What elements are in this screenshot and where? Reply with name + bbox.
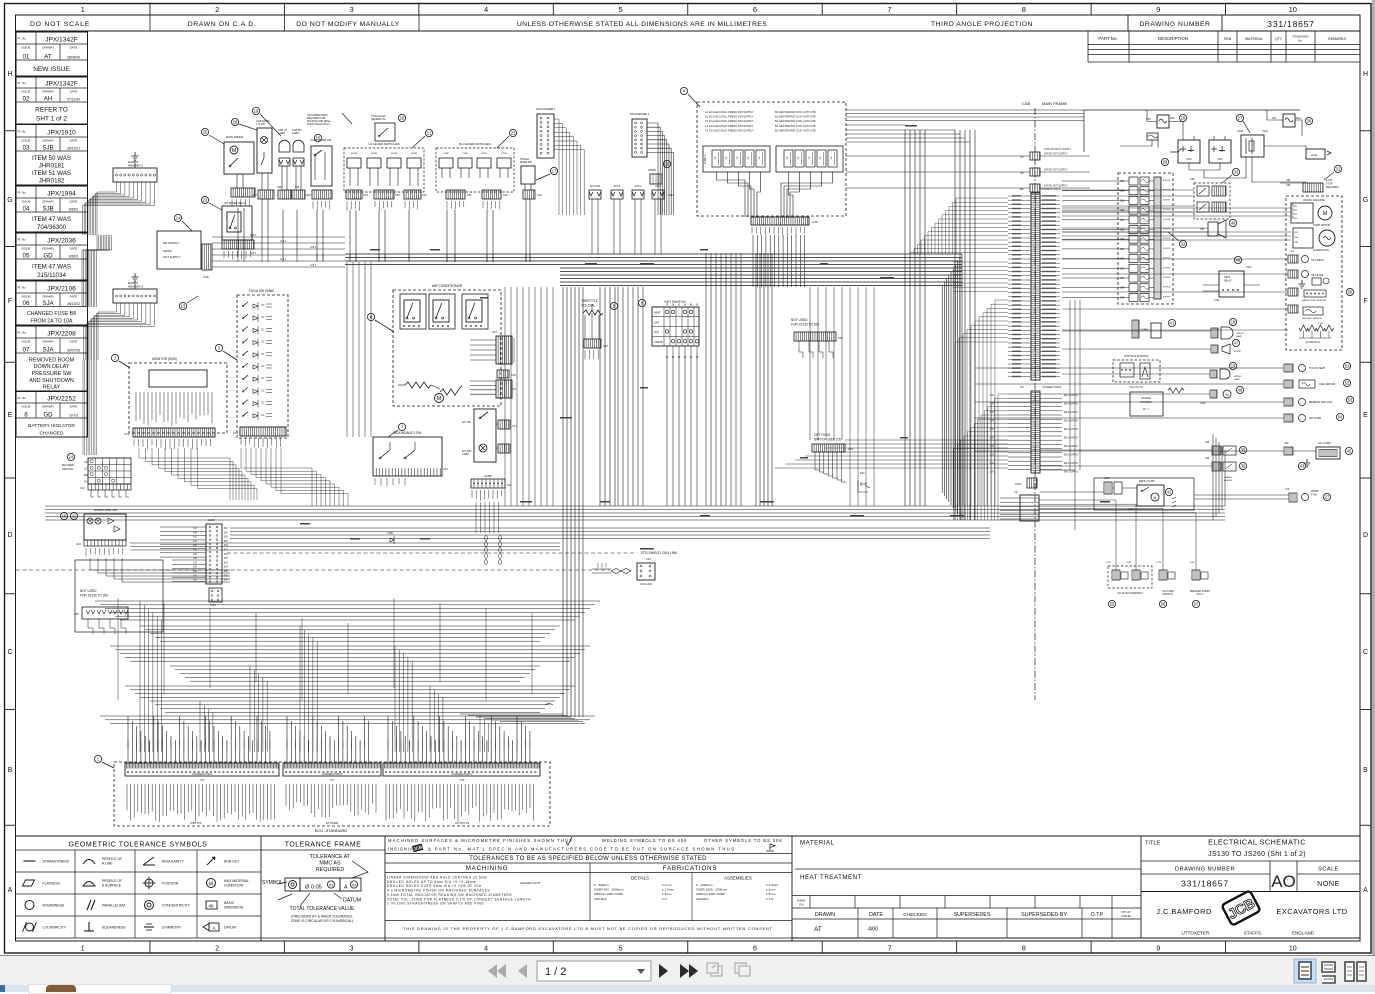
- svg-text:DASH HEADER 3: DASH HEADER 3: [536, 108, 556, 111]
- svg-text:± 1.5mm: ± 1.5mm: [662, 888, 674, 892]
- svg-text:C84: C84: [1286, 184, 1291, 187]
- horizontal wire bus center: [345, 254, 962, 265]
- svg-text:AH: AH: [44, 96, 53, 103]
- svg-text:A.B: A.B: [193, 549, 197, 552]
- svg-text:FACIA SW PANEL: FACIA SW PANEL: [249, 289, 275, 293]
- svg-text:24: 24: [69, 455, 74, 460]
- svg-text:GD: GD: [43, 253, 53, 260]
- svg-text:& PART No, MAT'L SPEC'N AND MA: & PART No, MAT'L SPEC'N AND MANUFACTURER…: [428, 847, 736, 852]
- svg-text:A.B: A.B: [193, 566, 197, 569]
- C180 wire labels: [196, 525, 200, 527]
- svg-text:B.R: B.R: [224, 554, 228, 556]
- check lamp gate 18: [1221, 327, 1233, 339]
- svg-text:± 3mm: ± 3mm: [766, 888, 776, 892]
- svg-text:RUN OUT: RUN OUT: [224, 860, 239, 864]
- svg-text:3: 3: [218, 346, 221, 351]
- geometric tolerance symbol CONCENTRICITY: [145, 901, 154, 910]
- scattered wire identification labels: [370, 249, 380, 251]
- svg-text:(PRECEDED BY ø WHEN TOLERANCE: (PRECEDED BY ø WHEN TOLERANCE: [291, 915, 353, 919]
- svg-text:FABRICATIONS: FABRICATIONS: [663, 865, 718, 872]
- svg-text:HEADER 3: HEADER 3: [128, 285, 143, 289]
- svg-text:ISSUE: ISSUE: [21, 90, 30, 94]
- svg-text:ENG REV SENSOR: ENG REV SENSOR: [1302, 318, 1322, 320]
- svg-text:B: B: [684, 304, 686, 307]
- svg-text:A.B 1: A.B 1: [310, 263, 317, 267]
- svg-text:ZONE IS CIRCULAR OR CYLINDRICA: ZONE IS CIRCULAR OR CYLINDRICAL): [291, 919, 353, 923]
- svg-text:704/36300: 704/36300: [37, 224, 67, 231]
- svg-text:30: 30: [1307, 119, 1312, 124]
- connector C32 throttle: [584, 339, 601, 348]
- facia panel switch rows: [243, 302, 248, 306]
- svg-text:2: 2: [215, 5, 219, 14]
- wires to relays and horn: [1062, 189, 1194, 191]
- svg-text:STAFFS.: STAFFS.: [1244, 931, 1263, 936]
- wires from dash header 4: [647, 123, 658, 215]
- svg-text:ISSUE: ISSUE: [21, 295, 30, 299]
- ECU signal name columns (outputs): [386, 784, 534, 822]
- svg-text:BREAKER PUMPS: BREAKER PUMPS: [1190, 590, 1210, 593]
- svg-text:EXCAVATORS LTD: EXCAVATORS LTD: [1276, 907, 1347, 916]
- svg-text:C6: C6: [1020, 155, 1024, 159]
- key switch pins: [666, 346, 668, 356]
- svg-text:CC: CC: [261, 365, 265, 368]
- svg-text:A LINE: A LINE: [102, 862, 113, 866]
- svg-text:C57: C57: [1120, 181, 1125, 183]
- wires from item 14 to right: [212, 236, 345, 238]
- svg-text:19: 19: [254, 109, 259, 114]
- svg-text:A.B: A.B: [193, 544, 197, 547]
- svg-text:AO: AO: [1271, 872, 1296, 891]
- svg-text:HOT SUPPLY: HOT SUPPLY: [163, 255, 181, 259]
- svg-text:WELDING SYMBOLS TO BS 499: WELDING SYMBOLS TO BS 499: [602, 838, 687, 843]
- svg-text:ENG SUPPLY: ENG SUPPLY: [1064, 421, 1079, 423]
- wires a/c to connectors: [470, 339, 496, 341]
- svg-text:C69: C69: [1120, 297, 1125, 299]
- svg-text:AIR CONDITIONER: AIR CONDITIONER: [432, 284, 463, 288]
- svg-text:C112: C112: [655, 185, 661, 188]
- svg-text:A.B: A.B: [193, 540, 197, 543]
- svg-text:B: B: [1363, 767, 1368, 774]
- svg-text:Pt. No: Pt. No: [18, 191, 27, 195]
- svg-text:REFILL PUMP: REFILL PUMP: [1139, 480, 1155, 483]
- glow plugs: [1299, 325, 1308, 331]
- svg-text:SCALE: SCALE: [1318, 867, 1339, 873]
- fuse panel output strip: [1154, 177, 1161, 299]
- svg-text:OUTPUTS: OUTPUTS: [455, 821, 469, 825]
- svg-text:46: 46: [208, 903, 214, 908]
- svg-text:4: 4: [484, 946, 488, 953]
- svg-text:NOT USED: NOT USED: [791, 318, 808, 322]
- svg-text:REQUIRED: REQUIRED: [1326, 186, 1339, 189]
- connector C180 vertical: [206, 524, 222, 584]
- svg-text:23: 23: [203, 198, 208, 203]
- svg-text:10-03: 10-03: [69, 414, 78, 418]
- svg-text:C137: C137: [1106, 562, 1112, 564]
- wires from dash header 3 to right then down: [554, 119, 559, 215]
- svg-text:6: 6: [753, 5, 757, 14]
- svg-text:ENGLAND: ENGLAND: [1292, 931, 1315, 936]
- svg-text:C90: C90: [1284, 442, 1289, 445]
- a/c blower resistor network: [405, 382, 431, 388]
- svg-text:DRAWING NUMBER: DRAWING NUMBER: [1175, 867, 1235, 873]
- svg-text:DATE: DATE: [70, 46, 78, 50]
- svg-text:B.R: B.R: [990, 412, 994, 414]
- svg-text:42: 42: [1167, 490, 1172, 495]
- svg-text:D: D: [1363, 532, 1368, 539]
- svg-text:8: 8: [370, 315, 373, 320]
- svg-text:1 IN 2000 STRAIGHTNESS ON SHAF: 1 IN 2000 STRAIGHTNESS ON SHAFTS AND PIN…: [387, 902, 484, 906]
- svg-text:4: 4: [484, 5, 488, 14]
- svg-text:C59: C59: [1120, 200, 1125, 202]
- svg-text:OFF: OFF: [654, 320, 660, 324]
- twisted pair to CAN link: [611, 569, 631, 574]
- svg-text:TOLERANCE FRAME: TOLERANCE FRAME: [285, 842, 362, 849]
- parts list table: [1087, 31, 1089, 62]
- svg-text:DRINK: DRINK: [163, 249, 172, 253]
- svg-text:A.B 1: A.B 1: [280, 257, 287, 261]
- svg-text:NONE: NONE: [1317, 879, 1340, 888]
- svg-text:C112: C112: [668, 194, 674, 197]
- svg-text:A1 ECU-ECU/SOL FRESH DIN SUPPL: A1 ECU-ECU/SOL FRESH DIN SUPPLY: [705, 128, 754, 132]
- svg-text:C10: C10: [80, 487, 85, 490]
- svg-text:C58: C58: [1120, 191, 1125, 193]
- svg-text:LAMP: LAMP: [462, 453, 469, 456]
- svg-text:SUPERSEDED BY: SUPERSEDED BY: [1021, 912, 1067, 918]
- svg-text:C30: C30: [503, 194, 508, 197]
- svg-text:THIS DRAWING IS THE PROPERTY O: THIS DRAWING IS THE PROPERTY OF J.C.BAMF…: [403, 926, 773, 931]
- svg-text:Pt. No: Pt. No: [18, 286, 27, 290]
- svg-text:HORN: HORN: [411, 153, 418, 155]
- svg-text:C10: C10: [460, 778, 465, 782]
- svg-text:01: 01: [23, 54, 30, 61]
- blower switch matrix: [67, 453, 74, 460]
- svg-text:C103: C103: [1246, 267, 1252, 269]
- svg-text:MACHINED SURFACES & MICROMETRE: MACHINED SURFACES & MICROMETRE FINISHES …: [388, 838, 573, 843]
- svg-text:C87: C87: [1294, 232, 1299, 234]
- svg-text:L.S O/P: L.S O/P: [256, 122, 265, 126]
- svg-text:RESERVE TANK LOW: RESERVE TANK LOW: [1309, 401, 1333, 404]
- svg-text:MONITOR (EMS): MONITOR (EMS): [152, 357, 177, 361]
- starter motor: [1291, 203, 1313, 223]
- svg-text:JPX/1342F: JPX/1342F: [45, 81, 78, 88]
- svg-text:6/5/02: 6/5/02: [69, 255, 79, 259]
- horizontal bus lines lower center: [45, 506, 1225, 520]
- svg-text:C24: C24: [76, 543, 81, 546]
- wiper pressure switch row 27: [1289, 493, 1297, 502]
- geometric tolerance symbol SYMMETRY: [144, 926, 154, 928]
- svg-text:H: H: [7, 71, 12, 78]
- svg-text:31: 31: [1336, 167, 1341, 172]
- svg-text:B1 HEATER/AIR CON, AUTO F/B: B1 HEATER/AIR CON, AUTO F/B: [775, 119, 816, 123]
- svg-text:17: 17: [552, 169, 557, 174]
- wires heat relay: [1203, 284, 1219, 286]
- travel mode switch: [521, 166, 535, 184]
- svg-text:WORKLAMP SW: WORKLAMP SW: [94, 508, 117, 512]
- svg-text:36: 36: [1241, 464, 1246, 469]
- svg-text:M: M: [1292, 216, 1294, 218]
- svg-text:C180: C180: [208, 518, 215, 522]
- svg-text:5A: 5A: [797, 156, 800, 159]
- svg-text:5A: 5A: [725, 156, 728, 159]
- dashed box RH lever switches: [436, 148, 514, 192]
- svg-text:TRAVEL: TRAVEL: [1224, 476, 1233, 479]
- svg-text:5: 5: [619, 946, 623, 953]
- svg-text:C64: C64: [1120, 249, 1125, 251]
- cab-frame boundary dash-dot line: [1034, 108, 1036, 700]
- svg-text:PWR: PWR: [443, 153, 449, 155]
- svg-text:HORN: HORN: [371, 153, 378, 155]
- svg-text:LAMP: LAMP: [292, 132, 299, 135]
- svg-text:LSV PUMP: LSV PUMP: [1162, 591, 1174, 593]
- svg-text:21: 21: [427, 131, 432, 136]
- svg-text:18: 18: [400, 116, 405, 121]
- monitor signal labels (vertical): [136, 392, 212, 426]
- svg-text:9: 9: [1156, 946, 1160, 953]
- svg-text:ENG SUPPLY: ENG SUPPLY: [1064, 429, 1079, 431]
- svg-text:SPARE: SPARE: [648, 169, 656, 172]
- wires C2 going left: [998, 394, 1008, 520]
- svg-text:SUMP: SUMP: [484, 474, 492, 478]
- svg-text:HYD OIL TEMP: HYD OIL TEMP: [1309, 368, 1326, 370]
- svg-text:0 - 500mm: 0 - 500mm: [594, 883, 609, 887]
- sensor row 53 reserve tank: [1284, 398, 1293, 406]
- svg-text:A.B: A.B: [193, 561, 197, 564]
- svg-text:C33: C33: [395, 194, 400, 197]
- svg-text:FOR JS130 TO 260: FOR JS130 TO 260: [791, 323, 819, 327]
- svg-text:ITEM 50 WAS: ITEM 50 WAS: [32, 155, 71, 162]
- svg-text:5A: 5A: [830, 156, 833, 159]
- svg-text:JPX/1994: JPX/1994: [47, 191, 76, 198]
- dashed CAN bus line: [227, 552, 637, 554]
- svg-text:CAN LINK: CAN LINK: [640, 582, 652, 586]
- svg-text:2: 2: [114, 356, 117, 361]
- svg-text:Pt. No: Pt. No: [18, 396, 27, 400]
- connector C111: [1306, 149, 1325, 159]
- box REDUNDANCY SW: [373, 437, 442, 476]
- svg-text:± 1°: ± 1°: [662, 897, 668, 901]
- svg-text:20: 20: [665, 162, 670, 167]
- wires into engine box: [1062, 207, 1291, 209]
- svg-text:49: 49: [1236, 258, 1241, 263]
- svg-text:DATE: DATE: [70, 247, 78, 251]
- svg-text:OVER 1000 - 2000mm: OVER 1000 - 2000mm: [696, 888, 728, 892]
- svg-text:28/11/02: 28/11/02: [67, 302, 80, 306]
- svg-text:F: F: [8, 298, 12, 305]
- svg-text:41: 41: [1170, 321, 1175, 326]
- svg-text:DRAWING NUMBER: DRAWING NUMBER: [1140, 21, 1211, 28]
- svg-text:Pt. No: Pt. No: [18, 81, 27, 85]
- fuse group A: [703, 146, 770, 172]
- connector C184: [209, 588, 222, 602]
- svg-text:26: 26: [233, 120, 238, 125]
- svg-text:27: 27: [1238, 116, 1243, 121]
- svg-text:C115: C115: [305, 194, 311, 197]
- svg-text:B.R RD: B.R RD: [1163, 277, 1171, 279]
- svg-text:50: 50: [1348, 290, 1353, 295]
- svg-text:SQUARENESS: SQUARENESS: [102, 926, 126, 930]
- pump section enclosure: [1094, 478, 1194, 510]
- svg-text:5A: 5A: [758, 156, 761, 159]
- engine control unit small: [1130, 392, 1163, 416]
- wires descending from aux connectors: [592, 215, 661, 254]
- geometric tolerance symbol BASIC DIMENSION: [206, 901, 217, 909]
- geometric tolerance symbol MAX MATERIAL CONDITION: [207, 879, 216, 888]
- toolbar: single page mode (active): [1294, 959, 1316, 983]
- svg-text:10: 10: [62, 514, 67, 519]
- svg-text:HORN: HORN: [391, 153, 398, 155]
- connector EARTH HEADER 2: [113, 168, 157, 182]
- svg-text:REMARKS: REMARKS: [1328, 37, 1346, 41]
- svg-text:CYLINDRICITY: CYLINDRICITY: [43, 926, 67, 930]
- svg-text:C37: C37: [252, 193, 257, 197]
- svg-text:CC: CC: [261, 402, 265, 405]
- svg-text:ITEM 47 WAS: ITEM 47 WAS: [32, 263, 71, 270]
- wires down to solenoids: [1115, 521, 1117, 560]
- svg-text:JPX/2252: JPX/2252: [47, 396, 76, 403]
- power wiring top right: [1084, 109, 1300, 111]
- right mid riser wires: [1070, 300, 1080, 470]
- svg-text:6: 6: [641, 301, 644, 306]
- svg-text:PROFILE OF: PROFILE OF: [102, 857, 122, 861]
- svg-text:35: 35: [1241, 448, 1246, 453]
- svg-text:WATER TEMP SENSOR: WATER TEMP SENSOR: [1302, 299, 1327, 302]
- svg-text:JS130 TO JS260 (Sht 1 of 2): JS130 TO JS260 (Sht 1 of 2): [1208, 851, 1306, 858]
- water temp sensor: [1288, 288, 1298, 296]
- svg-text:DETAILS: DETAILS: [631, 876, 649, 881]
- svg-text:C21: C21: [492, 330, 497, 334]
- svg-text:Pt. No: Pt. No: [18, 238, 27, 242]
- svg-text:ISSUE: ISSUE: [21, 247, 30, 251]
- svg-text:ENG SUPPLY: ENG SUPPLY: [1064, 412, 1079, 414]
- inline fuse symbol: [1147, 133, 1158, 140]
- svg-text:C100: C100: [1318, 323, 1324, 325]
- wires from earth header 3 fanning down-left: [98, 303, 117, 360]
- svg-text:8: 8: [1022, 5, 1026, 14]
- svg-text:C55: C55: [1190, 178, 1195, 181]
- svg-text:C8: C8: [200, 778, 204, 782]
- svg-text:C73: C73: [1285, 489, 1290, 491]
- wires down from C11: [475, 502, 477, 533]
- svg-text:B.R RD: B.R RD: [1163, 199, 1171, 201]
- svg-text:215/11034: 215/11034: [37, 272, 66, 279]
- toolbar: facing pages mode: [1345, 962, 1366, 981]
- svg-text:OVER 500 - 2000mm: OVER 500 - 2000mm: [594, 888, 624, 892]
- svg-text:GLOW PLUG: GLOW PLUG: [1306, 341, 1321, 344]
- drawn/date/checked row: [792, 918, 1141, 920]
- svg-text:5A: 5A: [747, 156, 750, 159]
- svg-text:DRAWN: DRAWN: [42, 200, 53, 204]
- wire bundle left going down: [82, 235, 97, 307]
- svg-text:B.R: B.R: [224, 562, 228, 564]
- ECU connector A strip: [125, 763, 279, 776]
- svg-text:5: 5: [613, 304, 616, 309]
- svg-text:CONDITION: CONDITION: [224, 884, 244, 888]
- svg-text:C138: C138: [1126, 562, 1132, 564]
- svg-text:MODE SW: MODE SW: [520, 161, 532, 164]
- svg-text:07/11/00: 07/11/00: [67, 98, 80, 102]
- verticals through mid zone: [810, 287, 842, 440]
- svg-text:ANGULARITY: ANGULARITY: [162, 860, 184, 864]
- svg-text:DIMENSION: DIMENSION: [224, 906, 244, 910]
- svg-text:54: 54: [1338, 415, 1343, 420]
- svg-text:ISSUE: ISSUE: [21, 46, 30, 50]
- svg-text:LO: LO: [84, 468, 87, 471]
- svg-text:REDUNDANCY SW: REDUNDANCY SW: [393, 431, 421, 435]
- switch module item 14 DR SUPPLY box: [157, 231, 201, 269]
- svg-text:DRAWN: DRAWN: [42, 90, 53, 94]
- dashed box ISUZU ENGINE: [1286, 196, 1342, 350]
- svg-text:C84: C84: [1200, 228, 1205, 231]
- svg-text:E: E: [8, 412, 13, 419]
- sensor row 52 fuel sensor: [1284, 380, 1293, 388]
- svg-text:33: 33: [1234, 170, 1239, 175]
- sensor row 51 hyd oil temp: [1284, 364, 1293, 372]
- svg-text:± 3mm: ± 3mm: [662, 892, 672, 896]
- svg-text:05: 05: [23, 253, 30, 260]
- connector C48 grid: [82, 607, 128, 619]
- svg-text:B.R: B.R: [224, 528, 228, 530]
- geometric tolerance symbol RUN OUT: [207, 857, 215, 865]
- svg-text:7: 7: [887, 5, 891, 14]
- svg-text:C4: C4: [1014, 490, 1018, 494]
- svg-text:B.R: B.R: [224, 567, 228, 569]
- svg-text:MATERIAL: MATERIAL: [800, 840, 835, 847]
- resistor pullup: [1168, 388, 1184, 393]
- svg-text:SWITCH: SWITCH: [62, 467, 73, 471]
- svg-text:RH LEVER SWITCHES: RH LEVER SWITCHES: [459, 142, 491, 146]
- refill pump: [1137, 485, 1164, 506]
- dashed box fuse panel: [1118, 173, 1173, 304]
- svg-text:A SURFACE: A SURFACE: [102, 884, 122, 888]
- connectors C34 C33 below LH lever switches: [346, 190, 362, 199]
- solenoid valve group LSV flow diverter: [1108, 566, 1152, 588]
- svg-text:8: 8: [1022, 946, 1026, 953]
- svg-text:A: A: [1363, 887, 1368, 894]
- toolbar: page number combobox: [537, 961, 651, 981]
- svg-text:B.R: B.R: [224, 537, 228, 539]
- sensor row 54 air filter: [1284, 414, 1293, 422]
- dashed box LH lever switches: [344, 148, 424, 192]
- cab supply connectors C6 C8 C7: [1030, 152, 1040, 160]
- dashed enclosure ECU standard: [114, 762, 550, 826]
- dashed box FACIA SW PANEL: [237, 295, 288, 438]
- geometric tolerance symbol STRAIGHTNESS: [24, 860, 36, 862]
- svg-text:C48: C48: [74, 613, 79, 616]
- svg-text:M: M: [352, 883, 355, 888]
- svg-text:ISUZU ENGINE: ISUZU ENGINE: [1303, 198, 1324, 202]
- svg-text:OIL PRESS: OIL PRESS: [1311, 259, 1324, 262]
- svg-text:06: 06: [23, 300, 30, 307]
- svg-text:ANGLES: ANGLES: [594, 897, 607, 901]
- svg-text:6: 6: [753, 946, 757, 953]
- svg-text:1: 1: [81, 5, 85, 14]
- corner bends connecting routing zone: [117, 598, 119, 700]
- svg-text:DRAWN: DRAWN: [42, 139, 53, 143]
- svg-text:C31: C31: [467, 194, 472, 197]
- toolbar: previous view (disabled): [707, 963, 722, 976]
- svg-text:C68: C68: [1120, 288, 1125, 290]
- connector C20: [497, 370, 509, 378]
- C1 pin stub wires and labels: [1008, 195, 1031, 197]
- svg-text:B1 HEATER/AIR CON, AUTO F/B: B1 HEATER/AIR CON, AUTO F/B: [775, 124, 816, 128]
- connector C104: [1027, 478, 1037, 488]
- svg-text:E: E: [1363, 412, 1368, 419]
- battery isolator: [1241, 135, 1264, 157]
- cab roof lamp switch unit: [257, 128, 272, 173]
- svg-text:5: 5: [618, 5, 622, 14]
- geometric tolerance symbol FLATNESS: [23, 880, 35, 886]
- horizontal routing zone above ECU: [95, 600, 600, 602]
